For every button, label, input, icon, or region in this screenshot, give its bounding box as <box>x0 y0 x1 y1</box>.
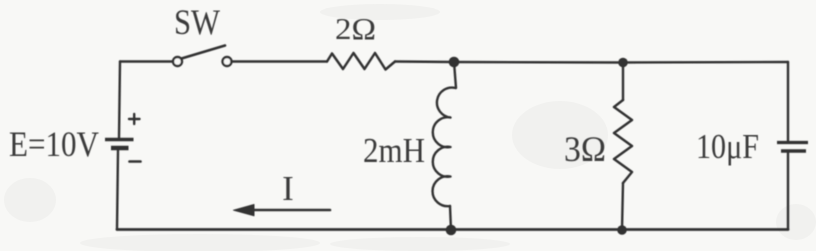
svg-text:I: I <box>282 169 294 208</box>
battery E plates <box>105 140 134 149</box>
wire switch to resistor R1 <box>232 60 328 62</box>
wire resistor R2 to bottom node <box>622 183 623 230</box>
switch SW <box>173 46 232 67</box>
battery minus sign <box>130 160 141 163</box>
svg-text:SW: SW <box>174 2 220 42</box>
bottom node under inductor junction dot <box>446 225 457 236</box>
wire inductor to bottom node <box>450 206 451 230</box>
inductor L1 2mH coil <box>433 88 456 207</box>
wire top-left segment <box>120 60 173 62</box>
wire node B to top-right corner <box>623 61 788 64</box>
node A junction dot <box>449 57 460 68</box>
wire right vertical upper (to capacitor) <box>787 62 789 141</box>
wire node A to inductor <box>454 62 456 88</box>
wire node B to resistor R2 <box>622 63 624 101</box>
svg-text:2Ω: 2Ω <box>335 11 376 46</box>
wire node A to node B <box>454 61 623 64</box>
svg-text:3Ω: 3Ω <box>564 129 606 169</box>
wire left vertical lower <box>117 150 118 230</box>
battery plus sign <box>129 114 140 124</box>
capacitor C1 plates <box>777 143 808 152</box>
wire resistor to node A <box>395 60 454 63</box>
bottom node under R2 junction dot <box>617 225 627 235</box>
wire right vertical lower <box>787 153 789 230</box>
wire bottom <box>117 228 788 231</box>
svg-text:2mH: 2mH <box>363 131 425 170</box>
current arrow I <box>234 205 331 216</box>
resistor R1 2ohm <box>327 53 395 70</box>
svg-text:10μF: 10μF <box>696 127 759 166</box>
resistor R2 3ohm <box>614 100 632 183</box>
wire left vertical upper (source to top wire) <box>119 62 120 139</box>
svg-text:E=10V: E=10V <box>9 124 99 164</box>
node B junction dot <box>618 58 628 68</box>
